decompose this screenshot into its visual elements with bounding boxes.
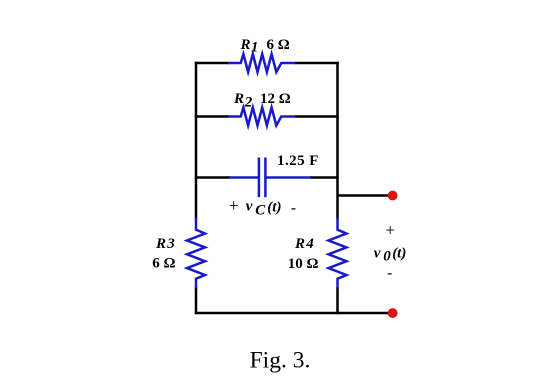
svg-text:Fig. 3.: Fig. 3. — [250, 347, 311, 373]
wire capacitor-right segment — [310, 176, 339, 179]
wire R2-left segment — [195, 115, 229, 118]
resistor R1 — [228, 54, 296, 72]
wire right upper vertical — [336, 62, 339, 219]
wire R2-right segment — [295, 115, 339, 118]
wire capacitor-left segment — [195, 176, 230, 179]
wire left upper vertical — [195, 62, 198, 219]
svg-text:-: - — [387, 265, 392, 281]
wire output tap — [338, 194, 393, 197]
svg-text:v: v — [374, 245, 381, 261]
wire top-left segment — [195, 62, 229, 65]
wire top-right segment — [295, 62, 339, 65]
svg-text:6 Ω: 6 Ω — [267, 37, 290, 53]
svg-text:v: v — [246, 199, 253, 215]
svg-text:1.25 F: 1.25 F — [277, 153, 319, 169]
svg-text:R: R — [294, 236, 305, 252]
wire left lower vertical — [195, 287, 198, 314]
svg-text:1: 1 — [251, 40, 259, 56]
resistor R3 — [187, 218, 205, 289]
svg-text:-: - — [291, 201, 296, 217]
svg-text:12 Ω: 12 Ω — [260, 91, 291, 107]
svg-text:0: 0 — [383, 249, 391, 265]
resistor R2 — [228, 108, 296, 126]
wire right lower vertical — [336, 287, 339, 314]
capacitor C (1.25 F) — [229, 158, 311, 198]
svg-text:+: + — [229, 196, 239, 216]
svg-text:R: R — [155, 236, 166, 252]
svg-text:10 Ω: 10 Ω — [288, 256, 319, 272]
terminal dot bottom — [388, 308, 398, 318]
resistor R4 — [329, 218, 347, 289]
svg-text:(t): (t) — [267, 200, 281, 216]
svg-text:6 Ω: 6 Ω — [152, 255, 175, 271]
terminal dot top — [388, 191, 398, 201]
svg-text:(t): (t) — [392, 246, 406, 262]
svg-text:4: 4 — [305, 236, 314, 252]
wire bottom — [195, 312, 392, 315]
svg-text:R: R — [233, 91, 244, 107]
svg-text:2: 2 — [244, 95, 253, 111]
svg-text:+: + — [385, 221, 395, 240]
svg-text:3: 3 — [166, 236, 175, 252]
svg-text:C: C — [255, 202, 266, 218]
svg-text:R: R — [240, 37, 251, 53]
